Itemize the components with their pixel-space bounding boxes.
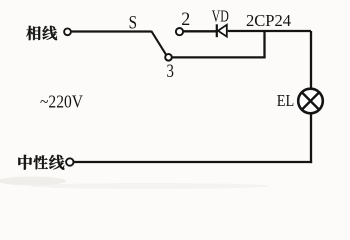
diode VD cathode bar bbox=[216, 24, 218, 37]
lamp EL symbol bbox=[298, 89, 323, 114]
svg-text:~220V: ~220V bbox=[40, 92, 83, 112]
switch S blade bbox=[151, 31, 166, 55]
svg-text:VD: VD bbox=[212, 6, 229, 25]
wire: diode to right corner bbox=[228, 30, 311, 32]
wire: phase terminal to switch pivot bbox=[71, 30, 152, 32]
scan smudge bottom-left bbox=[0, 177, 66, 186]
svg-text:2: 2 bbox=[181, 10, 190, 30]
wire: node 3 to junction bbox=[172, 56, 266, 58]
wire: top right corner down to lamp bbox=[310, 31, 312, 89]
scan smudge bottom-mid bbox=[30, 183, 270, 189]
phase terminal node bbox=[64, 28, 71, 35]
wire: junction drop from top wire bbox=[263, 31, 265, 57]
label char 相 bbox=[26, 26, 40, 40]
svg-text:EL: EL bbox=[277, 91, 295, 110]
wire: lamp down to bottom wire bbox=[310, 113, 312, 163]
diode VD triangle bbox=[218, 25, 227, 37]
switch contact node 2 bbox=[176, 28, 183, 35]
wire: bottom neutral run bbox=[74, 161, 312, 163]
switch contact node 3 bbox=[165, 54, 172, 61]
svg-text:3: 3 bbox=[167, 62, 174, 82]
label char 中 bbox=[18, 155, 32, 170]
svg-text:S: S bbox=[129, 13, 137, 33]
wire: node 2 to diode bbox=[183, 30, 216, 32]
label char 线 bbox=[42, 26, 57, 40]
svg-text:2CP24: 2CP24 bbox=[246, 11, 291, 30]
label char 性 bbox=[33, 155, 48, 169]
neutral terminal node bbox=[66, 158, 73, 165]
label char 线 bbox=[49, 155, 64, 170]
